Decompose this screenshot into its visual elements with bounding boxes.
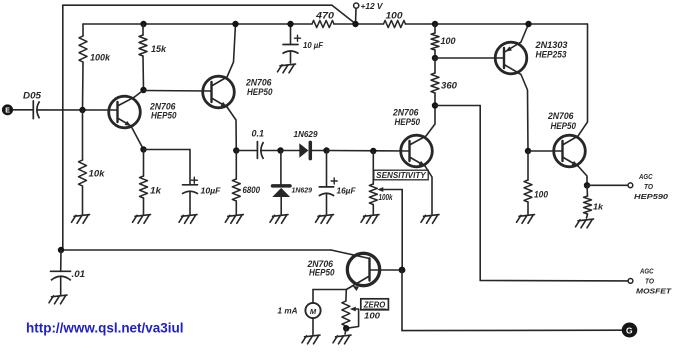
node bottom rail junction (58, 247, 64, 253)
svg-text:0.1: 0.1 (252, 129, 265, 139)
svg-text:HEP50: HEP50 (395, 117, 421, 127)
wire pnp emitter (506, 24, 529, 52)
ground (1N629) (270, 215, 288, 224)
capacitor 10 µF (283, 21, 324, 63)
ground (1k) (133, 215, 151, 224)
wire Q4 collector (370, 269, 400, 271)
resistor 1k (Q5 emitter) (584, 185, 604, 218)
wiper (sensitivity) (377, 187, 402, 267)
resistor 100 (Q5 base) (524, 151, 548, 214)
resistor 6800 (232, 151, 260, 215)
svg-text:100: 100 (364, 311, 380, 321)
svg-text:http://www.qsl.net/va3iul: http://www.qsl.net/va3iul (26, 319, 184, 335)
resistor 1k (140, 150, 163, 215)
label URL (26, 319, 184, 335)
svg-text:TO: TO (644, 182, 653, 191)
transistor Q2 2N706 (203, 76, 273, 108)
ground (10k) (72, 215, 90, 224)
wire Q3 collector (410, 106, 436, 146)
wire pnp base (435, 57, 504, 59)
node Q5 emitter (584, 182, 590, 188)
svg-text:10k: 10k (89, 169, 106, 179)
ground (Q3 emitter) (421, 215, 439, 224)
node Q3 collector junction (432, 102, 438, 108)
ground (6800) (225, 215, 243, 224)
transistor U1 2N1303 (495, 40, 567, 74)
resistor 470 (312, 11, 334, 28)
svg-text:10 µF: 10 µF (303, 40, 324, 50)
potentiometer ZERO 100 (342, 290, 350, 329)
resistor 10k (79, 110, 106, 214)
node E input terminal (2, 104, 33, 115)
svg-text:AGC: AGC (638, 172, 653, 181)
node rail-100 (432, 21, 438, 27)
wire Q3 emitter (410, 157, 433, 214)
wire to G (402, 270, 622, 331)
ground (100k pot) (361, 215, 379, 224)
svg-text:1N629: 1N629 (292, 186, 313, 195)
svg-text:+12 V: +12 V (361, 2, 384, 11)
wire meter branch (313, 290, 346, 304)
wire top rail (83, 23, 588, 25)
svg-text:HEP50: HEP50 (151, 110, 177, 120)
svg-text:100k: 100k (379, 193, 393, 202)
wire Q2 collector (212, 24, 236, 86)
svg-text:D05: D05 (23, 90, 42, 100)
node +12V junction (352, 21, 358, 27)
resistor 15k (139, 21, 167, 90)
svg-text:M: M (310, 307, 317, 316)
node 16uF junction (323, 147, 329, 153)
capacitor 10µF (emitter) (144, 150, 222, 215)
svg-text:1N629: 1N629 (294, 129, 318, 139)
wire Q2 emitter (212, 98, 237, 151)
svg-text:15k: 15k (151, 44, 167, 54)
capacitor 0.1 (236, 129, 280, 159)
node Q1 emitter (140, 146, 146, 152)
wire bottom rail (61, 249, 331, 251)
wiper (zero) (346, 307, 358, 329)
transistor Q4 2N706 (307, 253, 380, 285)
ground (16uF) (316, 215, 334, 224)
capacitor 16µF (319, 151, 357, 215)
svg-text:HEP253: HEP253 (536, 50, 567, 60)
potentiometer 100k (369, 151, 393, 214)
svg-text:AGC: AGC (639, 267, 654, 276)
wire Q5 base (528, 150, 563, 152)
label AGC TO MOSFET (636, 267, 673, 296)
svg-text:2N1303: 2N1303 (534, 40, 567, 50)
svg-text:ZERO: ZERO (363, 300, 386, 310)
node diode junction (277, 147, 283, 153)
label 1 mA (278, 306, 298, 315)
node Q5 base (525, 148, 531, 154)
wire Q4 emitter (346, 276, 369, 291)
svg-text:HEP50: HEP50 (309, 268, 335, 278)
resistor 100 (divider top) (431, 24, 456, 58)
node AGC hep590 terminal (628, 183, 633, 188)
label 100 (zero) (364, 311, 380, 321)
ground (.01) (49, 295, 67, 304)
node pnp emitter rail (525, 21, 531, 27)
svg-text:HEP590: HEP590 (634, 192, 669, 201)
wire Q1 base-Q2 (144, 90, 212, 93)
label SENSITIVITY (374, 170, 428, 180)
ground (Q5 base res) (517, 215, 535, 224)
node zero pot bottom (343, 325, 349, 331)
transistor Q5 2N706 (547, 111, 585, 167)
wire top frame (63, 5, 356, 24)
node AGC mosfet terminal (628, 279, 633, 284)
node divider mid (432, 55, 438, 61)
capacitor D05 (23, 90, 118, 118)
node Q1 base (79, 107, 85, 113)
meter M 1mA (305, 303, 320, 335)
wire left frame (62, 5, 64, 250)
svg-text:E: E (5, 108, 10, 115)
node Q2 emitter (233, 147, 239, 153)
node Q2 collector (232, 21, 238, 27)
svg-text:.01: .01 (72, 269, 86, 279)
svg-text:2N706: 2N706 (547, 111, 574, 121)
node +12V terminal (354, 2, 384, 24)
resistor 100 (top rail) (384, 11, 406, 28)
wire pnp collector (504, 65, 528, 152)
wire Q1 emitter (118, 118, 144, 150)
svg-text:16µF: 16µF (337, 187, 357, 196)
wire Q5 collector (563, 24, 588, 145)
svg-text:SENSITIVITY: SENSITIVITY (376, 171, 426, 180)
node Q3 base (370, 148, 376, 154)
transistor Q3 2N706 (392, 108, 432, 167)
svg-text:100k: 100k (90, 53, 111, 63)
diode 1N629 (series) (281, 129, 327, 159)
node G terminal (622, 323, 638, 338)
svg-text:1k: 1k (593, 202, 604, 211)
svg-text:6800: 6800 (243, 185, 261, 195)
svg-text:100: 100 (534, 190, 548, 200)
label ZERO (361, 299, 389, 310)
wire Q5 emitter (563, 157, 588, 185)
svg-text:TO: TO (645, 277, 654, 286)
svg-text:HEP50: HEP50 (247, 87, 273, 97)
resistor 360 (431, 58, 457, 106)
wire to Q3 base (327, 150, 410, 153)
svg-text:1k: 1k (150, 185, 162, 195)
transistor Q1 2N706 (109, 96, 177, 128)
svg-text:100: 100 (386, 11, 403, 21)
ground (zero pot) (333, 328, 351, 344)
svg-text:1 mA: 1 mA (278, 306, 298, 315)
svg-text:360: 360 (441, 81, 457, 91)
wire Q1 collector (118, 90, 144, 106)
svg-text:470: 470 (315, 11, 334, 21)
capacitor .01 (51, 250, 86, 295)
wire Q4 base (331, 250, 370, 259)
ground (10uF) (278, 64, 296, 73)
node Q1 collector (140, 87, 146, 93)
wire AGC hep590 (587, 184, 628, 186)
wire AGC mosfet branch (435, 106, 628, 281)
resistor 100k (79, 24, 111, 110)
label AGC TO HEP590 (634, 172, 669, 201)
svg-text:10µF: 10µF (201, 186, 222, 195)
ground (10uF emitter) (179, 215, 197, 224)
ground (Q5 emitter res) (576, 219, 594, 228)
ground (meter) (302, 335, 320, 344)
diode 1N629 (shunt) (272, 151, 312, 215)
node Q4 collector (399, 267, 406, 274)
svg-text:MOSFET: MOSFET (636, 287, 673, 296)
svg-text:100: 100 (441, 36, 456, 46)
svg-text:G: G (626, 325, 633, 335)
svg-text:HEP50: HEP50 (551, 121, 577, 131)
